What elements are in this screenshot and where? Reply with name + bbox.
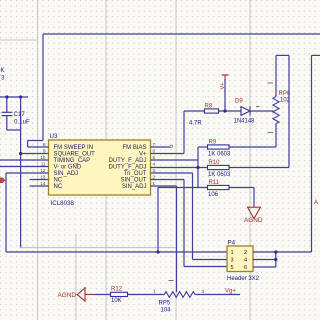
svg-text:106: 106 [208, 192, 219, 198]
pin mark RP6 bottom [268, 132, 274, 134]
svg-text:12: 12 [40, 168, 46, 173]
svg-text:4.7R: 4.7R [189, 121, 202, 127]
svg-text:3: 3 [153, 168, 156, 173]
svg-text:3: 3 [231, 258, 234, 264]
svg-text:V- or GND: V- or GND [54, 165, 82, 171]
ground AGND down [247, 207, 261, 218]
svg-text:FM BIAS: FM BIAS [122, 145, 146, 151]
P4 pin digits right [244, 250, 247, 271]
junction dot P4 pin1 branch [156, 250, 159, 253]
svg-text:1: 1 [153, 289, 156, 294]
wire U3 pin12 [6, 173, 49, 252]
wire R11 right to AGND [229, 188, 254, 207]
U3 right pin numbers [153, 142, 156, 186]
junction dot pin9 riser top [19, 95, 22, 98]
svg-text:1N4148: 1N4148 [234, 119, 256, 125]
svg-text:A: A [314, 200, 318, 206]
wire D9 cathode to RP6 wiper [250, 110, 274, 112]
wire U3 pin5 to R9 left [151, 147, 208, 188]
no-connect marker pin7 [170, 145, 173, 148]
svg-text:4: 4 [244, 258, 247, 264]
svg-text:R11: R11 [209, 180, 220, 186]
ground AGND left [77, 287, 93, 302]
wire AGND to R12 [94, 294, 111, 296]
potentiometer RP5 [164, 292, 195, 298]
svg-text:5: 5 [231, 265, 234, 271]
connector P4 box [227, 246, 253, 272]
wire U3 pin13 stub [30, 179, 49, 181]
svg-text:NC: NC [54, 184, 63, 190]
pin mark RP5 wiper [169, 280, 174, 282]
svg-text:FM SWEEP IN: FM SWEEP IN [54, 145, 94, 151]
svg-text:7: 7 [153, 142, 156, 147]
wire U3 pin14 stub [30, 185, 49, 187]
svg-text:1: 1 [231, 250, 234, 256]
svg-text:SQUARE_OUT: SQUARE_OUT [54, 152, 96, 158]
wire RP6 top loop to R10 right [229, 55, 289, 167]
wire P4 right tie vertical [275, 252, 277, 267]
svg-text:10K: 10K [111, 298, 122, 304]
svg-text:Tri_OUT: Tri_OUT [124, 171, 147, 177]
svg-text:6: 6 [244, 265, 247, 271]
wire U3 pin11 [0, 166, 49, 168]
svg-text:DUTY_F_ADJ: DUTY_F_ADJ [108, 158, 146, 164]
svg-text:2: 2 [153, 175, 156, 180]
wire pin9 / C17 net vertical riser [21, 97, 177, 248]
wire U3 pin7 FM BIAS stub [151, 146, 171, 148]
wire P4 pin1 long net [6, 251, 227, 253]
wire RP6 bottom to R9 right [229, 124, 276, 148]
svg-text:1K 0603: 1K 0603 [208, 172, 231, 178]
junction dot P4 pin2 [274, 250, 277, 253]
svg-text:AGND: AGND [58, 292, 77, 299]
power port left edge [0, 178, 5, 183]
svg-text:D9: D9 [235, 99, 243, 105]
wire U3 pin6 V+ to R8 [151, 111, 205, 154]
wire right net riser [276, 55, 320, 252]
svg-text:5: 5 [153, 155, 156, 160]
wire U3 pin4 to R10 left [151, 167, 208, 169]
svg-text:SIN_ADJ: SIN_ADJ [54, 171, 79, 177]
resistor R11 [208, 185, 230, 189]
svg-text:TIMING_CAP: TIMING_CAP [54, 158, 91, 164]
wire R11 left row [158, 187, 208, 189]
svg-text:C17: C17 [14, 111, 26, 118]
svg-text:6: 6 [153, 149, 156, 154]
svg-text:ICL8038: ICL8038 [51, 200, 75, 207]
resistor R12 [111, 292, 128, 296]
potentiometer RP6 [273, 97, 279, 124]
capacitor C17 [2, 97, 21, 130]
svg-text:10: 10 [40, 155, 46, 160]
wire P4 pin6 [253, 266, 276, 268]
wire U3 pin2 SIN_OUT to P4 pin5 [151, 180, 228, 267]
svg-text:RP5: RP5 [159, 301, 171, 307]
wire R8 right [219, 110, 242, 112]
svg-text:V+: V+ [220, 83, 226, 90]
resistor R10 [208, 165, 230, 169]
svg-text:R10: R10 [209, 160, 221, 166]
U3 left pin names [54, 145, 96, 190]
resistor R9 [208, 145, 230, 149]
svg-text:1K 0603: 1K 0603 [208, 152, 231, 158]
svg-text:Vg+: Vg+ [225, 289, 236, 295]
wire P4 pin2 [253, 251, 276, 253]
pin mark 2 [256, 106, 260, 108]
wire U3 pin3 Tri_OUT to P4 pin3 [151, 173, 228, 260]
svg-text:Header 3X2: Header 3X2 [227, 276, 260, 282]
diode D9 [241, 106, 250, 115]
wire R12 to RP5 [128, 294, 165, 296]
svg-text:9: 9 [43, 149, 46, 154]
svg-text:2: 2 [244, 250, 247, 256]
wire R11 row drop to P4 pin1 [157, 188, 159, 253]
svg-text:NC: NC [54, 178, 63, 184]
svg-text:V+: V+ [139, 152, 147, 158]
svg-text:13: 13 [40, 175, 46, 180]
node C17 top wire [0, 96, 28, 98]
svg-text:DUTY_F_ADJ: DUTY_F_ADJ [108, 165, 146, 171]
junction dot pin4 net [196, 166, 199, 169]
junction dot R8/D9/V+ [223, 109, 226, 112]
wire top bus vertical drop to U3 pin8 [28, 34, 43, 147]
svg-text:8: 8 [43, 142, 46, 147]
pin mark RP6 top [268, 82, 274, 84]
svg-text:SIN_OUT: SIN_OUT [120, 178, 146, 184]
power port V+ [220, 75, 228, 111]
svg-text:1: 1 [153, 181, 156, 186]
wire RP5 right to Vg+ [195, 294, 240, 296]
svg-text:R12: R12 [111, 287, 123, 293]
svg-text:3: 3 [202, 289, 205, 294]
svg-text:0.1uF: 0.1uF [14, 119, 30, 126]
op IC U3 box [49, 140, 151, 195]
U3 right pin names [108, 145, 147, 190]
svg-text:SIN_ADJ: SIN_ADJ [122, 184, 147, 190]
svg-text:R8: R8 [205, 104, 213, 110]
svg-text:AGND: AGND [244, 217, 263, 224]
junction dot C17 top [5, 95, 8, 98]
svg-text:U3: U3 [50, 133, 58, 140]
wire U3 pin1 SIN_ADJ to RP5 wiper [151, 186, 177, 292]
wire top bus horizontal [43, 33, 320, 35]
wire U3 pin9 [21, 153, 49, 155]
U3 left pin numbers [40, 142, 46, 186]
wire P4 pin4 [253, 259, 276, 261]
svg-text:4: 4 [153, 162, 156, 167]
wire U3 pin8 [28, 146, 49, 148]
svg-text:104: 104 [161, 308, 172, 314]
svg-text:14: 14 [40, 181, 46, 186]
svg-text:P4: P4 [228, 240, 236, 247]
junction dot P4 pin4 [274, 258, 277, 261]
junction dot pin9 [19, 152, 22, 155]
wire U3 pin10 [0, 159, 49, 161]
resistor R8 [205, 109, 219, 113]
svg-text:K: K [0, 68, 4, 74]
P4 pin digits left [231, 250, 234, 271]
svg-text:R9: R9 [209, 140, 217, 146]
svg-text:11: 11 [41, 162, 46, 167]
